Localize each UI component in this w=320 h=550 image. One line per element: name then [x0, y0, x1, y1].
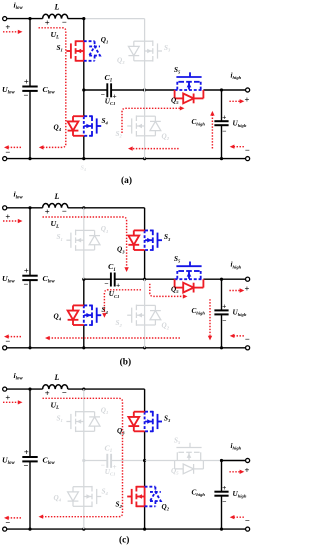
wire S1 source to M1	[83, 250, 85, 279]
transistor S1	[83, 230, 85, 250]
wire S2 source to bottom rail	[144, 506, 146, 529]
svg-text:+: +	[24, 447, 29, 457]
wire middle rail M1 to C1	[84, 460, 108, 462]
capacitor C_high	[214, 491, 228, 493]
current path M2-Q5	[150, 284, 183, 297]
svg-text:−: −	[24, 279, 29, 289]
node bottom rail / C_high	[220, 346, 223, 349]
svg-text:+: +	[222, 483, 226, 492]
node M1	[82, 278, 85, 281]
capacitor C_low	[22, 275, 37, 277]
svg-text:−: −	[245, 334, 250, 344]
node M2	[143, 459, 146, 462]
wire middle rail M2 to S5	[145, 278, 175, 280]
svg-text:+: +	[45, 207, 50, 217]
wire middle rail S5 to C_high	[203, 89, 221, 91]
svg-text:+: +	[245, 94, 250, 104]
svg-text:+: +	[5, 211, 10, 221]
current arrow input -	[8, 336, 21, 338]
wire S1 drain	[83, 389, 85, 412]
terminal output +	[246, 88, 250, 92]
transistor S2	[144, 487, 146, 507]
terminal output +	[246, 458, 250, 462]
diode Q3	[134, 229, 145, 231]
transistor S1	[83, 41, 85, 61]
diode Q1	[84, 411, 95, 413]
node top rail / C_low branch	[28, 17, 31, 20]
diode Q3	[134, 40, 145, 42]
capacitor C_low	[22, 86, 37, 88]
wire middle rail to output terminal	[222, 278, 246, 280]
diode Q2	[145, 304, 156, 306]
terminal input +	[3, 206, 7, 210]
transistor S3	[144, 41, 146, 61]
wire C_high branch upper	[221, 279, 223, 310]
wire S2 drain to M2	[144, 461, 146, 487]
terminal input -	[3, 527, 7, 531]
wire top rail (inductor to S1 drain)	[68, 388, 84, 390]
node top rail / C_low branch	[28, 388, 31, 391]
node bottom rail / S2	[143, 528, 146, 531]
transistor S4	[83, 487, 85, 507]
inductor L	[43, 385, 68, 389]
diode Q5	[174, 461, 176, 469]
capacitor C1	[106, 454, 108, 468]
terminal output -	[246, 346, 250, 350]
diode Q4	[73, 304, 84, 306]
terminal output -	[246, 157, 250, 161]
terminal input -	[3, 346, 7, 350]
terminal input +	[3, 387, 7, 391]
diode Q2	[145, 115, 156, 117]
wire S4 drain to M1	[83, 279, 85, 305]
diode Q3	[134, 411, 145, 413]
wire middle rail M1 to C1	[84, 278, 111, 280]
svg-text:−: −	[222, 127, 226, 136]
diode Q4	[73, 115, 84, 117]
svg-text:+: +	[245, 465, 250, 475]
wire bottom rail	[7, 158, 248, 160]
svg-text:−: −	[62, 206, 67, 216]
transistor S2	[144, 305, 146, 325]
transistor S1	[83, 412, 85, 432]
wire C_low branch lower	[29, 461, 31, 529]
current arrow input +	[3, 31, 18, 33]
current arrow input -	[8, 517, 21, 519]
node middle rail / C_high	[220, 278, 223, 281]
diode Q1	[84, 40, 95, 42]
terminal input -	[3, 157, 7, 161]
transistor S3	[144, 230, 146, 250]
svg-text:−: −	[245, 145, 250, 155]
wire S1 drain	[83, 208, 85, 231]
wire S3 source to M2	[144, 61, 146, 90]
wire S3 drain	[144, 208, 146, 231]
capacitor C1	[110, 273, 112, 287]
current arrow C_high up	[211, 116, 213, 149]
svg-text:+: +	[116, 281, 120, 290]
wire top rail (S1 to S3 leg)	[84, 207, 145, 209]
wire S2 source to bottom rail	[144, 325, 146, 348]
svg-text:−: −	[62, 387, 67, 397]
current path L-S3 into C1	[43, 217, 127, 267]
wire bottom rail	[7, 347, 248, 349]
node middle rail / C_high	[220, 459, 223, 462]
svg-text:−: −	[222, 497, 226, 506]
svg-text:(a): (a)	[121, 175, 132, 186]
wire bottom rail	[7, 528, 248, 530]
svg-text:+: +	[45, 388, 50, 398]
wire top rail (S1 to S3 leg)	[84, 18, 145, 20]
node M1	[82, 88, 85, 91]
wire top rail (inductor to S1 drain)	[68, 18, 84, 20]
wire C_low branch lower	[29, 280, 31, 348]
wire S3 drain	[144, 19, 146, 42]
node M2	[143, 88, 146, 91]
node bottom rail / C_low	[28, 346, 31, 349]
node bottom rail / C_high	[220, 528, 223, 531]
node top rail / C_low branch	[28, 206, 31, 209]
wire S4 source to bottom rail	[83, 506, 85, 529]
transistor S4	[83, 116, 85, 136]
wire C_high branch lower	[221, 314, 223, 347]
current path bottom return	[133, 148, 179, 150]
svg-text:(c): (c)	[119, 535, 129, 546]
transistor S2	[144, 116, 146, 136]
wire S4 drain to M1	[83, 90, 85, 116]
wire middle rail C1 to M2	[111, 460, 145, 462]
wire S1 drain	[83, 19, 85, 42]
wire S2 drain to M2	[144, 279, 146, 305]
wire S4 source to bottom rail	[83, 325, 85, 348]
current path C1-S4 down	[104, 290, 141, 313]
node bottom rail / S2	[143, 157, 146, 160]
svg-text:+: +	[112, 462, 116, 471]
current arrow input -	[8, 146, 21, 148]
current path bottom return	[50, 337, 180, 339]
svg-text:+: +	[222, 112, 226, 121]
wire C_high branch lower	[221, 125, 223, 158]
terminal output -	[246, 527, 250, 531]
current arrow output +	[229, 471, 240, 473]
current arrow input +	[3, 220, 18, 222]
wire top rail (inductor to S1 drain)	[68, 207, 84, 209]
wire middle rail M2 to S5	[145, 89, 175, 91]
wire middle rail to output terminal	[222, 460, 246, 462]
wire S1 source to M1	[83, 431, 85, 460]
wire C_low branch lower	[29, 91, 31, 159]
svg-text:+: +	[5, 393, 10, 403]
node bottom rail / C_high	[220, 157, 223, 160]
wire C_low branch upper	[29, 19, 31, 87]
current arrow output +	[229, 100, 240, 102]
wire top rail left (terminal to inductor)	[7, 207, 43, 209]
svg-text:−: −	[62, 17, 67, 27]
diode Q5	[174, 279, 176, 287]
wire top rail left (terminal to inductor)	[7, 18, 43, 20]
svg-text:L: L	[54, 373, 60, 382]
current path loop L-S1-Q4	[39, 28, 66, 148]
wire top rail left (terminal to inductor)	[7, 388, 43, 390]
transistor S4	[83, 305, 85, 325]
svg-text:L: L	[54, 3, 60, 12]
svg-text:−: −	[245, 515, 250, 525]
wire S4 drain to M1	[83, 461, 85, 487]
capacitor C_high	[214, 120, 228, 122]
wire C_high branch upper	[221, 90, 223, 121]
node middle rail / C_high	[220, 88, 223, 91]
terminal input +	[3, 17, 7, 21]
wire S2 source to bottom rail	[144, 136, 146, 159]
node bottom rail / C_low	[28, 528, 31, 531]
node bottom rail / S4	[82, 157, 85, 160]
current path C1-Q5	[122, 108, 180, 133]
diode Q2	[145, 486, 156, 488]
wire S4 source to bottom rail	[83, 136, 85, 159]
wire middle rail M1 to C1	[84, 89, 108, 91]
svg-text:(b): (b)	[120, 357, 131, 368]
transistor S5	[175, 460, 204, 462]
svg-text:+: +	[45, 17, 50, 27]
current path loop L-Q3-S2	[43, 398, 123, 516]
terminal output +	[246, 277, 250, 281]
svg-text:+: +	[5, 22, 10, 32]
current arrow C_high down	[209, 299, 211, 336]
wire S1 source to M1	[83, 61, 85, 90]
inductor L	[43, 204, 68, 208]
current arrow input +	[3, 401, 18, 403]
wire S3 source to M2	[144, 250, 146, 279]
diode Q4	[73, 486, 84, 488]
node M2	[143, 278, 146, 281]
svg-text:+: +	[112, 91, 116, 100]
node bottom rail / S4	[82, 346, 85, 349]
current arrow output -	[234, 335, 244, 337]
current arrow output -	[234, 516, 244, 518]
node bottom rail / S2	[143, 346, 146, 349]
diode Q1	[84, 229, 95, 231]
inductor L	[43, 14, 68, 18]
wire S3 source to M2	[144, 431, 146, 460]
wire C_low branch upper	[29, 208, 31, 276]
svg-text:−: −	[104, 279, 108, 288]
current arrow output -	[234, 146, 244, 148]
wire middle rail S5 to C_high	[203, 278, 221, 280]
wire S3 drain	[144, 389, 146, 412]
wire C_low branch upper	[29, 389, 31, 457]
svg-text:+: +	[24, 266, 29, 276]
wire middle rail M2 to S5	[145, 460, 175, 462]
node bottom rail / C_low	[28, 157, 31, 160]
node top rail / S1 drain	[82, 388, 85, 391]
capacitor C_low	[22, 456, 37, 458]
capacitor C1	[106, 83, 108, 97]
svg-text:−: −	[24, 90, 29, 100]
node top rail / S1 drain	[82, 17, 85, 20]
svg-text:+: +	[222, 302, 226, 311]
transistor S5	[175, 278, 204, 280]
svg-text:L: L	[54, 192, 60, 201]
wire C_high branch lower	[221, 496, 223, 529]
node top rail / S1 drain	[82, 206, 85, 209]
transistor S3	[144, 412, 146, 432]
diode Q5	[174, 90, 176, 98]
wire middle rail to output terminal	[222, 89, 246, 91]
svg-text:−: −	[24, 460, 29, 470]
node M1	[82, 459, 85, 462]
wire middle rail S5 to C_high	[203, 460, 221, 462]
wire top rail (S1 to S3 leg)	[84, 388, 145, 390]
capacitor C_high	[214, 309, 228, 311]
wire middle rail C1 to M2	[111, 89, 145, 91]
svg-text:+: +	[24, 76, 29, 86]
transistor S5	[175, 89, 204, 91]
wire S2 drain to M2	[144, 90, 146, 116]
node bottom rail / S4	[82, 528, 85, 531]
svg-text:+: +	[245, 284, 250, 294]
svg-text:−: −	[222, 316, 226, 325]
wire middle rail C1 to M2	[115, 278, 145, 280]
wire C_high branch upper	[221, 461, 223, 492]
current arrow output +	[229, 290, 240, 292]
